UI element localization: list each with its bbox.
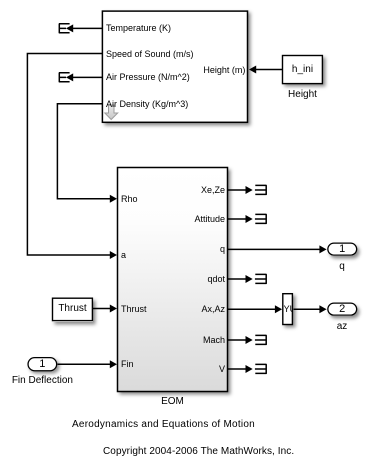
terminator T7 <box>255 364 267 374</box>
annotation Copyright <box>103 446 294 458</box>
wire Attitude out <box>228 218 246 220</box>
wire Xe,Ze out <box>228 189 246 191</box>
label q <box>327 261 357 273</box>
wire Air Pressure to terminator <box>73 76 103 78</box>
inport 1 Fin Deflection fill <box>27 357 57 371</box>
terminator T3 <box>255 185 267 195</box>
atmosphere block border <box>102 11 247 122</box>
q outport border <box>328 243 357 255</box>
port label Speed of Sound (m/s) <box>106 48 194 60</box>
outport 2 az fill <box>327 303 357 316</box>
outport 1 q fill <box>327 243 357 256</box>
port label Air Density (Kg/m^3) <box>106 98 188 110</box>
wire Mach out <box>228 339 246 341</box>
wire Thrust to EOM <box>93 308 111 310</box>
arrow into Fin port <box>110 360 117 368</box>
port label Temperature (K) <box>106 22 171 34</box>
arrow Mach <box>246 336 253 344</box>
name h_ini <box>282 64 323 76</box>
port label V <box>219 363 225 375</box>
numeral 1 in Fin inport <box>27 358 57 370</box>
wire Temperature to terminator <box>73 27 103 29</box>
annotation Aerodynamics and Equations of Motion <box>72 419 255 431</box>
wire Ax,Az to selector <box>228 308 276 310</box>
arrow into az outport <box>319 305 326 313</box>
port label Attitude <box>194 213 225 225</box>
port label a <box>121 249 126 261</box>
port label Air Pressure (N/m^2) <box>106 71 190 83</box>
constant Thrust fill <box>52 298 93 322</box>
port label Rho <box>121 193 138 205</box>
h_ini block border <box>283 56 323 84</box>
port label Ax,Az <box>201 303 225 315</box>
terminator T4 <box>255 214 267 224</box>
numeral 1 in q outport <box>327 243 357 255</box>
port label Mach <box>203 334 225 346</box>
wire Air Density to Rho <box>57 104 110 199</box>
arrow V <box>246 365 253 373</box>
Fin inport border <box>28 358 57 371</box>
az outport border <box>328 303 357 315</box>
arrow into Rho <box>110 195 117 203</box>
port label Height (m) <box>203 64 245 76</box>
terminator T2 <box>59 73 73 83</box>
arrow qdot <box>246 275 253 283</box>
label az <box>327 321 357 333</box>
Atmosphere Model block fill <box>102 10 249 123</box>
port label qdot <box>207 273 225 285</box>
arrow into a <box>110 251 117 259</box>
wire selector to az outport <box>294 308 321 310</box>
wire q to outport <box>228 248 320 250</box>
wire qdot out <box>228 278 246 280</box>
arrow Attitude <box>246 215 253 223</box>
arrow into selector <box>275 305 282 313</box>
wire h_ini to Height input <box>255 69 283 71</box>
block name EOM <box>117 396 228 408</box>
constant h_ini fill <box>282 55 323 85</box>
Thrust block border <box>53 298 93 320</box>
wire Speed of Sound to a <box>27 54 110 256</box>
arrow into Height <box>249 66 256 74</box>
label Height <box>282 89 323 101</box>
terminator T6 <box>255 335 267 345</box>
numeral 2 in az outport <box>327 303 357 315</box>
terminator T1 <box>59 24 73 34</box>
label Fin Deflection <box>11 375 73 387</box>
gray down-arrow icon inside atmosphere block <box>103 103 121 121</box>
EOM block border <box>118 168 228 392</box>
wire V out <box>228 368 246 370</box>
selector text Y(U) <box>284 304 293 314</box>
port label Thrust <box>121 303 147 315</box>
port label Fin <box>121 358 134 370</box>
arrow into Thrust port <box>110 305 117 313</box>
selector block border <box>283 294 293 325</box>
wire Fin Deflection to EOM <box>58 363 111 365</box>
port label Xe,Ze <box>201 184 225 196</box>
selector block fill <box>282 293 293 325</box>
terminator T5 <box>255 274 267 284</box>
arrow into q outport <box>319 245 326 253</box>
EOM block fill <box>117 167 229 393</box>
name Thrust <box>52 303 93 315</box>
arrow Xe,Ze <box>246 186 253 194</box>
port label q <box>220 243 225 255</box>
